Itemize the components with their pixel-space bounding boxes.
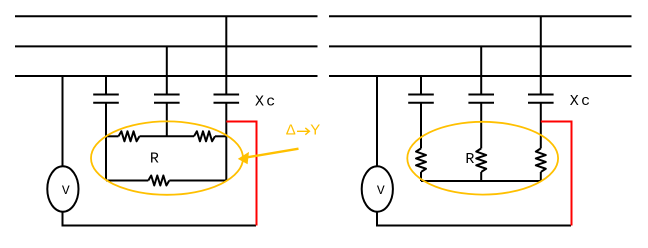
wire: right voltmeter bottom to bottom rail [376,212,378,226]
svg-text:V: V [377,183,385,198]
wire: tap from line 3 to voltmeter V (right) [376,76,378,167]
voltmeter V (left) [47,166,78,211]
resistor R (Y middle) [476,148,486,172]
svg-text:Xc: Xc [255,94,278,111]
resistor R (Y right) [536,148,546,172]
svg-text:V: V [62,183,70,198]
highlight ellipse around delta network [91,121,243,194]
wire: C1 bottom to delta left corner [105,103,107,181]
left circuit: phase bus line 1 [15,15,318,17]
wire: voltmeter bottom to bottom rail [62,212,64,226]
wire: C3 bottom to delta right corner [225,103,227,181]
wire: tap from line 1 to capacitor C3 [225,16,227,94]
wire: bottom rail (right circuit) [376,225,571,227]
svg-text:Xc: Xc [570,93,593,110]
right circuit: phase bus line 1 [329,15,632,17]
red wire (right circuit) [541,122,572,226]
capacitor C4 [408,95,434,103]
wire: tap from line 2 to capacitor C2 [166,46,168,94]
right circuit: phase bus line 3 [329,75,632,77]
capacitor C6 [528,95,554,103]
wire: star point bus [421,180,541,182]
voltmeter V (right) [362,166,393,211]
capacitor C5 [468,95,494,103]
left circuit: phase bus line 2 [15,45,318,47]
wire: delta top segment right [215,135,226,137]
svg-text:Δ: Δ [286,122,296,139]
resistor R (delta top-right) [194,131,215,141]
annotation arrowhead [238,152,249,164]
wire: Y middle resistor to star bus [480,172,482,181]
resistor R (delta bottom) [148,176,169,186]
wire: delta bottom segment left [106,180,148,182]
capacitor C2 [154,95,180,103]
wire: tap from line 1 to capacitor C6 [540,16,542,94]
resistor R (delta top-left) [119,131,140,141]
capacitor C3 [214,95,240,103]
svg-text:R: R [465,151,474,168]
right circuit: phase bus line 2 [329,45,632,47]
annotation arrow line [243,149,299,158]
left circuit: phase bus line 3 [15,75,318,77]
wire: C2 bottom to delta top wire [166,103,168,137]
red wire (left circuit) [226,122,256,226]
wire: delta top segment middle [140,135,195,137]
wire: C4 bottom to resistor R (Y left) [420,103,422,149]
wire: bottom rail (left circuit) [62,225,257,227]
capacitor C1 [93,95,119,103]
svg-text:R: R [150,151,159,168]
highlight ellipse around Y network [407,122,558,195]
label delta-to-Y [286,122,321,139]
wire: tap from line 3 to capacitor C4 [420,76,422,95]
wire: delta bottom segment right [169,180,226,182]
resistor R (Y left) [416,148,426,172]
wire: delta top segment left [106,135,119,137]
wire: tap from line 2 to capacitor C5 [480,46,482,94]
wire: Y right resistor to star bus [540,172,542,181]
svg-text:Y: Y [310,122,320,139]
wire: C6 bottom to resistor R (Y right) [540,103,542,149]
wire: Y left resistor to star bus [420,172,422,181]
wire: tap from line 3 to voltmeter V [62,76,64,167]
wire: tap from line 3 to capacitor C1 [105,76,107,95]
wire: C5 bottom to resistor R (Y middle) [480,103,482,149]
